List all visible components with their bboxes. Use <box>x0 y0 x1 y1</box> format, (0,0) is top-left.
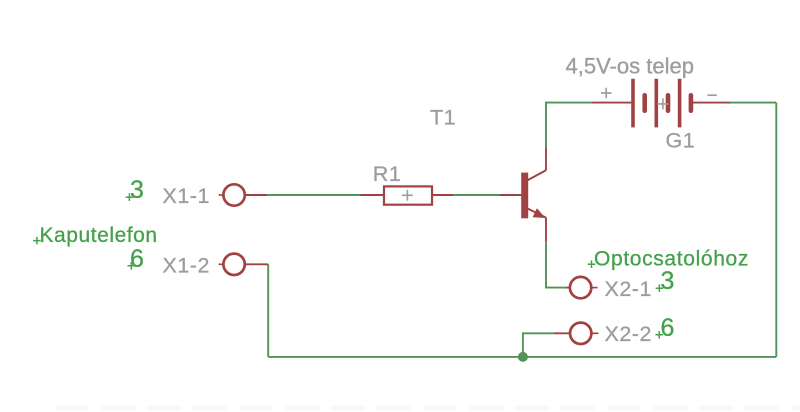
wire T1 collector to battery plus <box>546 103 592 148</box>
wire X1-2 down to bottom rail <box>267 264 269 357</box>
connector pad X1-2 <box>219 254 245 275</box>
svg-text:6: 6 <box>661 314 675 342</box>
svg-text:G1: G1 <box>666 128 696 152</box>
svg-text:3: 3 <box>130 176 144 204</box>
wire T1 emitter to X2-1 <box>546 241 567 287</box>
svg-text:4,5V-os telep: 4,5V-os telep <box>566 54 694 79</box>
svg-text:3: 3 <box>661 267 675 295</box>
wire battery minus to right rail <box>730 102 776 104</box>
connector pad X1-1 <box>219 184 245 205</box>
pin stub X2-2 <box>554 332 571 334</box>
svg-text:Optocsatolóhoz: Optocsatolóhoz <box>594 247 749 270</box>
connector pad X2-2 <box>570 323 599 344</box>
faint scan artifact strip <box>55 406 800 411</box>
label Kaputelefon <box>33 224 158 247</box>
pin number 3 of X1-1 <box>126 176 144 204</box>
battery G1 <box>592 79 730 128</box>
label Optocsatolóhoz <box>588 247 749 270</box>
svg-text:X2-2: X2-2 <box>605 322 652 346</box>
svg-text:X1-1: X1-1 <box>163 184 210 208</box>
pin stub X1-2 <box>245 263 268 265</box>
pin number 3 of X2-1 <box>656 267 675 295</box>
pin stub X1-1 <box>245 194 267 196</box>
transistor T1 <box>500 147 546 241</box>
svg-text:R1: R1 <box>373 162 401 186</box>
svg-text:X2-1: X2-1 <box>605 277 652 301</box>
battery polarity minus <box>708 94 717 96</box>
junction <box>518 352 528 362</box>
wire R1 to T1 base <box>454 194 500 196</box>
svg-text:6: 6 <box>130 245 144 273</box>
wire X1-1 to R1 <box>267 194 361 196</box>
wire bottom rail <box>268 356 776 358</box>
pin stub X2-1 <box>567 287 571 289</box>
pin number 6 of X2-2 <box>655 314 674 342</box>
svg-text:X1-2: X1-2 <box>163 254 210 278</box>
svg-text:T1: T1 <box>430 106 456 130</box>
resistor R1 <box>361 186 454 204</box>
connector pad X2-1 <box>570 277 598 298</box>
wire right rail vertical <box>775 103 777 357</box>
pin number 6 of X1-2 <box>128 245 144 273</box>
battery polarity plus <box>601 88 611 99</box>
svg-text:Kaputelefon: Kaputelefon <box>40 224 158 247</box>
wire junction to X2-2 <box>523 333 554 357</box>
